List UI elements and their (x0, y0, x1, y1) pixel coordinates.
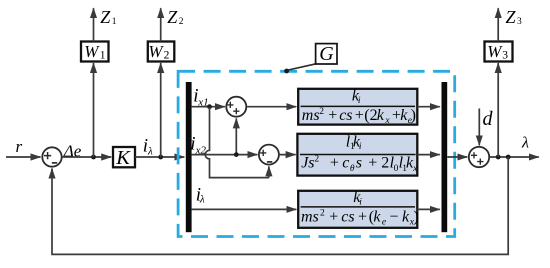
svg-text:θ: θ (350, 164, 355, 174)
block W3 (485, 42, 513, 62)
junction dot feedback (506, 155, 511, 160)
wire i_x1 (192, 106, 225, 108)
label box G (316, 43, 337, 65)
wire feedback into S0 (51, 169, 53, 174)
wire De to W1 (93, 63, 95, 157)
svg-text:Z: Z (506, 7, 517, 27)
svg-text:W: W (84, 42, 100, 61)
label lambda (521, 135, 529, 152)
block3 transfer function (298, 189, 419, 228)
wire block3 to mux bar (417, 208, 440, 210)
svg-text:3: 3 (517, 17, 522, 27)
svg-text:): ) (413, 208, 418, 225)
block W2 (148, 42, 175, 62)
block W1 (81, 42, 109, 62)
svg-text:k: k (402, 208, 410, 225)
svg-text:i: i (359, 198, 362, 208)
junction dot De branch (91, 155, 96, 160)
svg-text:s: s (356, 155, 362, 172)
svg-text:2: 2 (179, 17, 184, 27)
svg-text:): ) (411, 107, 416, 124)
svg-text:W: W (487, 42, 503, 61)
junction dot i_x1 (207, 104, 212, 109)
svg-text:c: c (342, 155, 349, 172)
svg-text:+: + (358, 208, 367, 225)
svg-text:cs: cs (341, 208, 354, 225)
svg-text:λ: λ (199, 194, 205, 206)
svg-text:k: k (377, 107, 385, 124)
svg-text:d: d (483, 108, 494, 130)
svg-text:2: 2 (164, 49, 170, 61)
svg-text:2: 2 (314, 155, 319, 165)
wire into S2 minus (268, 166, 270, 177)
wire i_x2 (192, 154, 258, 156)
svg-text:i: i (359, 142, 362, 152)
svg-text:2: 2 (320, 209, 325, 219)
svg-text:+: + (330, 155, 339, 172)
wire S2 to block2 (279, 154, 296, 156)
svg-text:ms: ms (301, 208, 319, 225)
svg-text:K: K (115, 147, 131, 169)
wire W2 to Z2 (160, 8, 162, 41)
wire feedback (52, 157, 508, 254)
summing junction S1 (226, 97, 246, 117)
svg-text:cs: cs (339, 107, 352, 124)
svg-text:+: + (328, 107, 337, 124)
svg-text:+: + (368, 155, 377, 172)
svg-text:i: i (358, 96, 361, 106)
svg-text:λ: λ (147, 146, 153, 158)
wire bar to S3 (447, 156, 467, 158)
wire S3 out (489, 156, 539, 158)
wire r input (6, 156, 41, 158)
svg-text:Js: Js (301, 155, 314, 172)
wire block2 to mux bar (417, 154, 440, 156)
wire W1 to Z1 (93, 8, 95, 41)
demux bar left (186, 82, 192, 232)
wire W3 to Z3 (497, 8, 499, 41)
label i_x2 (190, 134, 206, 157)
label i_lambda (143, 136, 153, 158)
summing junction S3 (469, 147, 489, 167)
svg-text:−: − (389, 208, 398, 225)
svg-text:1: 1 (112, 17, 117, 27)
svg-text:e: e (382, 218, 386, 228)
wire i_x2 up into S1 (235, 118, 237, 154)
svg-text:3: 3 (502, 49, 508, 61)
block2 transfer function (297, 134, 418, 176)
wire i_lambda to block3 (192, 208, 297, 210)
svg-text:Z: Z (167, 7, 178, 27)
svg-text:x: x (384, 116, 390, 126)
svg-text:G: G (319, 43, 334, 65)
wire d into S3 (478, 109, 480, 146)
svg-text:1: 1 (100, 49, 106, 61)
wire i_lambda to W2 (160, 63, 162, 157)
label Z1 (100, 7, 117, 27)
block1 transfer function (298, 87, 417, 126)
leader line G (284, 64, 316, 74)
summing junction S0 (42, 147, 61, 166)
label d (483, 108, 494, 130)
wire S1 to block1 (246, 106, 296, 108)
label Z3 (506, 7, 523, 27)
svg-text:ms: ms (302, 107, 320, 124)
svg-text:W: W (148, 42, 164, 61)
svg-text:r: r (16, 137, 23, 156)
mux bar right (442, 82, 448, 232)
svg-text:x: x (412, 164, 418, 174)
wire K to demux bar (135, 156, 184, 158)
svg-text:2: 2 (381, 155, 389, 172)
label r (16, 137, 23, 156)
label i_lambda inner (196, 185, 205, 206)
svg-text:+: + (355, 107, 364, 124)
svg-text:2: 2 (319, 107, 324, 117)
wire block1 to mux bar (417, 106, 440, 108)
junction dot i_x2 (234, 152, 239, 157)
svg-text:+: + (329, 208, 338, 225)
label i_x1 (193, 86, 208, 109)
svg-text:(2: (2 (364, 107, 377, 124)
summing junction S2 (259, 145, 279, 165)
wire up to W3 (497, 63, 499, 157)
wire S0 to K (62, 156, 111, 158)
dashed box G (178, 71, 455, 236)
block K (113, 147, 135, 169)
svg-text:Z: Z (100, 7, 111, 27)
junction dot W3 branch (496, 155, 501, 160)
label De (63, 141, 82, 160)
label Z2 (167, 7, 184, 27)
svg-text:λ: λ (521, 135, 529, 152)
junction dot i_lambda branch (158, 155, 163, 160)
wire i_x1 cross drop (205, 107, 269, 178)
svg-text:k: k (373, 208, 381, 225)
